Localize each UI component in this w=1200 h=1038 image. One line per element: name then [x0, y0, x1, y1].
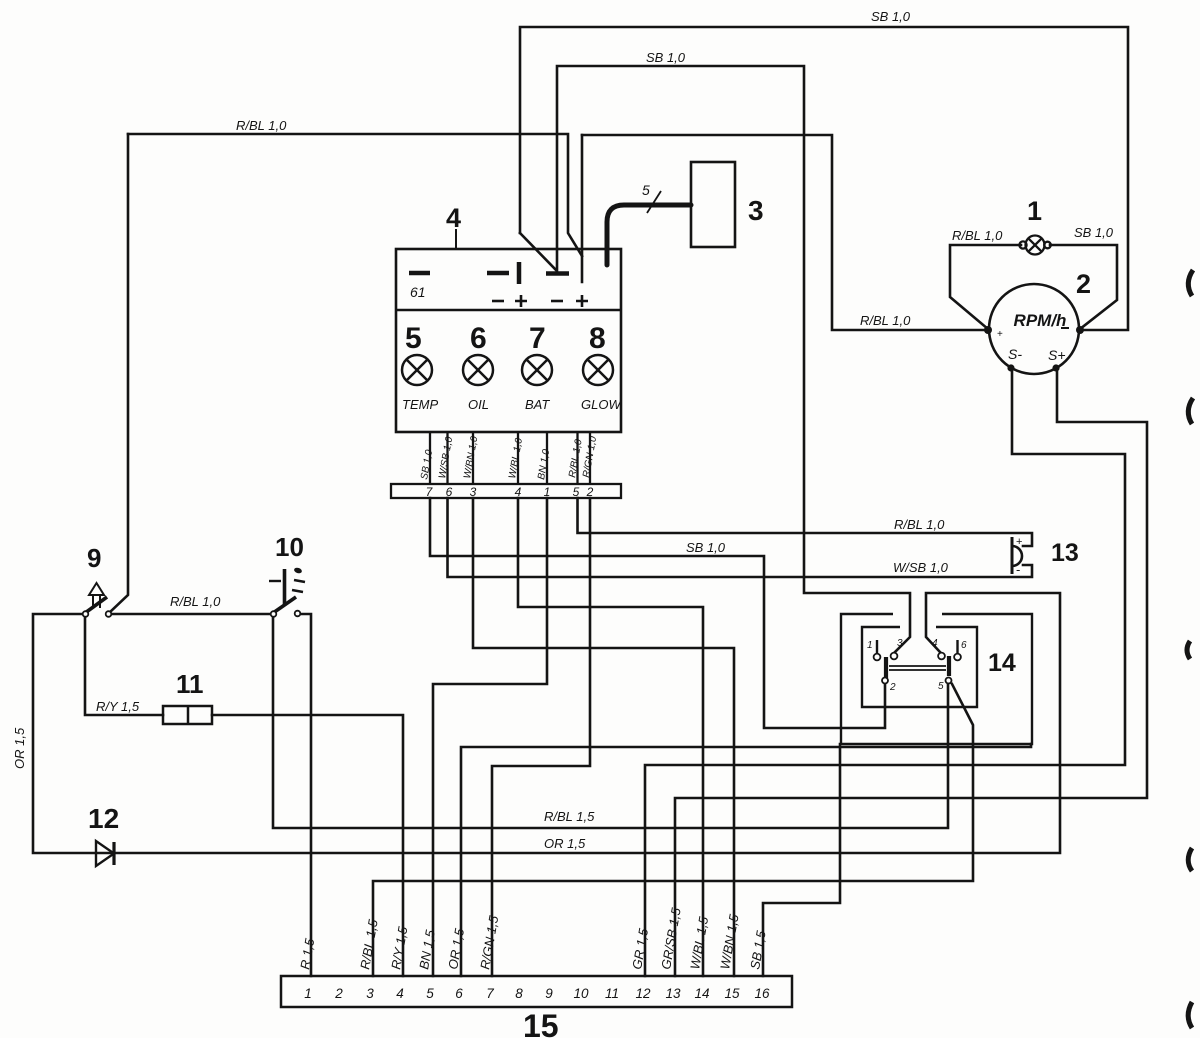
svg-text:10: 10	[573, 986, 589, 1001]
wire W/SB 1.0 panel pin6 to buzzer 13 minus	[448, 498, 1033, 577]
terminal bar group A plus	[517, 262, 522, 284]
svg-text:1: 1	[867, 640, 873, 651]
svg-text:R/BL 1,0: R/BL 1,0	[894, 517, 945, 532]
svg-text:5: 5	[642, 182, 650, 198]
svg-text:RPM/h: RPM/h	[1014, 311, 1067, 330]
svg-text:R/BL 1,0: R/BL 1,0	[236, 118, 287, 133]
svg-text:13: 13	[1051, 539, 1079, 567]
wire S- from tach to connector pin 12	[645, 367, 1125, 976]
svg-text:61: 61	[410, 284, 426, 300]
svg-text:2: 2	[334, 986, 343, 1001]
svg-text:W/BN 1,5: W/BN 1,5	[717, 912, 742, 970]
wire OR 1.5 branch to connector pin 6	[461, 744, 1031, 976]
relay 14 armature bars	[884, 657, 888, 678]
svg-text:GR 1,5: GR 1,5	[629, 927, 651, 971]
svg-text:TEMP: TEMP	[402, 397, 438, 412]
resistor 11	[163, 706, 212, 724]
relay 14 coil lines	[889, 666, 946, 670]
svg-text:6: 6	[470, 322, 487, 355]
svg-text:SB 1,0: SB 1,0	[871, 9, 911, 24]
svg-text:R/GN 1,5: R/GN 1,5	[477, 914, 501, 971]
terminal bar group B minus	[546, 271, 569, 276]
svg-text:SB 1,0: SB 1,0	[1074, 225, 1114, 240]
connector 15 pin numerals	[304, 986, 770, 1001]
relay 14 pin 2	[882, 678, 888, 684]
wire SB 1.0 top diagonal into panel minus bar	[520, 233, 556, 270]
relay 14 outer box	[841, 614, 1032, 744]
svg-text:7: 7	[486, 986, 494, 1001]
svg-text:GR/SB 1,5: GR/SB 1,5	[658, 906, 684, 971]
svg-text:W/BL 1,5: W/BL 1,5	[687, 915, 711, 971]
svg-text:9: 9	[87, 543, 101, 573]
buzzer 13	[1011, 537, 1014, 574]
svg-text:R/BL 1,0: R/BL 1,0	[860, 313, 911, 328]
svg-text:2: 2	[889, 682, 896, 693]
svg-text:BN 1,5: BN 1,5	[416, 928, 438, 971]
lamp 5 TEMP	[402, 355, 432, 385]
svg-text:5: 5	[426, 986, 434, 1001]
svg-text:4: 4	[396, 986, 404, 1001]
wire R/BL 1.5 relay pin 5 to connector pin 3	[373, 684, 973, 976]
svg-text:OR 1,5: OR 1,5	[544, 836, 586, 851]
wire SB 1.0 second (panel minus bar to relay pin 3)	[557, 66, 910, 652]
wire OR 1.5 diode line to relay pin 4	[33, 593, 1060, 853]
svg-text:1: 1	[304, 986, 312, 1001]
svg-text:12: 12	[88, 803, 119, 834]
svg-text:15: 15	[724, 986, 740, 1001]
fuse F1	[1019, 236, 1050, 255]
svg-text:5: 5	[405, 322, 422, 355]
relay 14 pin 5	[946, 678, 952, 684]
lamp 7 BAT	[522, 355, 552, 385]
wire W/BN panel pin3 to connector pin 15	[473, 498, 734, 976]
svg-text:SB 1,0: SB 1,0	[646, 50, 686, 65]
svg-text:7: 7	[529, 322, 546, 355]
wire R/GN panel pin2 to connector pin 7	[492, 498, 590, 976]
svg-text:6: 6	[446, 485, 453, 499]
wire R/BL 1.0 left vertical to switch 9	[110, 134, 128, 612]
wire R/BL 1.0 drop to panel plus terminal	[581, 135, 584, 282]
wire S+ from tach to connector pin 13	[675, 367, 1147, 976]
svg-text:S+: S+	[1048, 347, 1066, 363]
wire SB 1.5 relay box to connector pin 16	[763, 744, 840, 976]
connector 15 box	[281, 976, 792, 1007]
svg-text:3: 3	[470, 485, 477, 499]
svg-text:-: -	[1016, 562, 1020, 577]
svg-text:4: 4	[515, 485, 522, 499]
svg-text:BAT: BAT	[525, 397, 550, 412]
svg-text:W/BN 1,0: W/BN 1,0	[462, 435, 480, 479]
svg-text:5: 5	[938, 681, 944, 692]
wire SB 1.0 top (panel minus to tach minus)	[520, 27, 1128, 330]
rotated wire labels above panel connector	[419, 435, 599, 480]
svg-text:8: 8	[515, 986, 523, 1001]
switch 10 key bar	[283, 569, 287, 606]
svg-text:R/BL 1,0: R/BL 1,0	[952, 228, 1003, 243]
svg-text:3: 3	[897, 638, 903, 649]
svg-text:R/BL 1,5: R/BL 1,5	[544, 809, 595, 824]
svg-text:14: 14	[694, 986, 709, 1001]
svg-text:+: +	[997, 329, 1003, 340]
svg-text:W/BL 1,0: W/BL 1,0	[507, 437, 525, 480]
tachometer U2 RPM/h	[989, 284, 1079, 374]
wire 5 thick harness to box 3	[607, 205, 691, 265]
component 3 box	[691, 162, 735, 247]
svg-text:11: 11	[176, 669, 204, 699]
svg-text:1: 1	[1027, 196, 1042, 226]
svg-text:8: 8	[589, 322, 606, 355]
instrument panel box 4	[396, 249, 621, 432]
svg-text:1: 1	[544, 485, 551, 499]
rotated wire labels above connector 15	[297, 906, 769, 971]
scan artifact marks right edge	[1187, 270, 1193, 1028]
svg-text:R/BL 1,5: R/BL 1,5	[357, 918, 381, 971]
svg-text:R 1,5: R 1,5	[297, 937, 317, 971]
diode 12	[96, 841, 114, 866]
wire R/BL 1.5 switch 10 to relay pin 5	[273, 617, 948, 828]
relay 14 pin 3	[891, 653, 898, 660]
svg-text:9: 9	[545, 986, 553, 1001]
terminal bar group A minus	[487, 271, 509, 276]
lamp 8 GLOW	[583, 355, 613, 385]
polarity signs row	[492, 295, 588, 307]
svg-text:R/Y 1,5: R/Y 1,5	[388, 925, 410, 971]
relay 14 inner box	[862, 627, 977, 707]
svg-text:R/Y 1,5: R/Y 1,5	[96, 699, 140, 714]
svg-text:R/BL 1,0: R/BL 1,0	[170, 594, 221, 609]
relay 14 pin 4	[938, 653, 945, 660]
wire R/BL 1.0 tach plus to fuse 1	[950, 245, 1021, 329]
svg-text:14: 14	[988, 649, 1016, 677]
svg-text:11: 11	[605, 986, 619, 1001]
svg-text:15: 15	[523, 1008, 559, 1038]
svg-text:12: 12	[635, 986, 651, 1001]
switch 9 arrow symbol	[89, 583, 104, 608]
svg-text:GLOW: GLOW	[581, 397, 622, 412]
switch 10 position marks	[293, 567, 302, 574]
svg-text:+: +	[1016, 536, 1022, 548]
wire R/BL 1.0 switch 9 to switch 10	[111, 613, 271, 616]
svg-text:OR 1,5: OR 1,5	[12, 727, 27, 769]
svg-text:2: 2	[586, 485, 594, 499]
svg-text:SB 1,0: SB 1,0	[686, 540, 726, 555]
svg-text:W/SB 1,0: W/SB 1,0	[437, 436, 455, 480]
wire SB 1.0 panel pin7 to relay pin 2	[430, 498, 885, 728]
svg-text:4: 4	[932, 638, 938, 649]
switch 10 lever	[273, 597, 296, 613]
svg-text:S-: S-	[1008, 346, 1022, 362]
wire R/BL 1.0 panel pin5 to buzzer 13 plus	[578, 498, 1033, 546]
svg-text:2: 2	[1076, 269, 1091, 299]
svg-text:10: 10	[275, 532, 304, 562]
relay 14 pin 6	[956, 640, 958, 653]
svg-text:13: 13	[665, 986, 681, 1001]
wire R/Y 1.5 switch 9 to resistor to connector pin 4	[85, 617, 163, 715]
svg-text:16: 16	[754, 986, 770, 1001]
panel to connector wires	[430, 432, 590, 484]
wire R/BL 1.0 to tach plus	[582, 135, 986, 330]
switch 9 lever	[85, 597, 107, 613]
wire SB 1.0 fuse to tach minus	[1050, 245, 1117, 329]
svg-text:4: 4	[446, 203, 461, 233]
svg-text:OR 1,5: OR 1,5	[445, 927, 467, 971]
lamp 6 OIL	[463, 355, 493, 385]
svg-text:5: 5	[573, 485, 580, 499]
tach terminal dots and marks	[984, 326, 992, 334]
switch 10 contacts	[271, 611, 277, 617]
svg-text:6: 6	[961, 640, 967, 651]
wire R 1.5 switch 10 to connector pin 1	[300, 614, 311, 976]
svg-text:SB 1,5: SB 1,5	[747, 929, 769, 971]
svg-text:3: 3	[748, 195, 764, 226]
svg-text:OIL: OIL	[468, 397, 489, 412]
terminal 61 bar	[409, 271, 430, 276]
svg-text:BN 1,0: BN 1,0	[536, 448, 552, 480]
svg-text:6: 6	[455, 986, 463, 1001]
svg-text:SB 1,0: SB 1,0	[419, 449, 435, 481]
wire W/BL panel pin4 to connector pin 14	[518, 498, 703, 976]
panel connector strip	[391, 484, 621, 498]
svg-text:3: 3	[366, 986, 374, 1001]
panel connector pin numerals	[426, 485, 594, 499]
wire R/BL 1.0 top left horizontal	[128, 134, 582, 256]
wire BN panel pin1 to connector pin 5	[433, 498, 547, 976]
svg-text:W/SB 1,0: W/SB 1,0	[893, 560, 949, 575]
switch 9 contacts	[83, 611, 89, 617]
relay 14 pin 1	[876, 640, 878, 653]
